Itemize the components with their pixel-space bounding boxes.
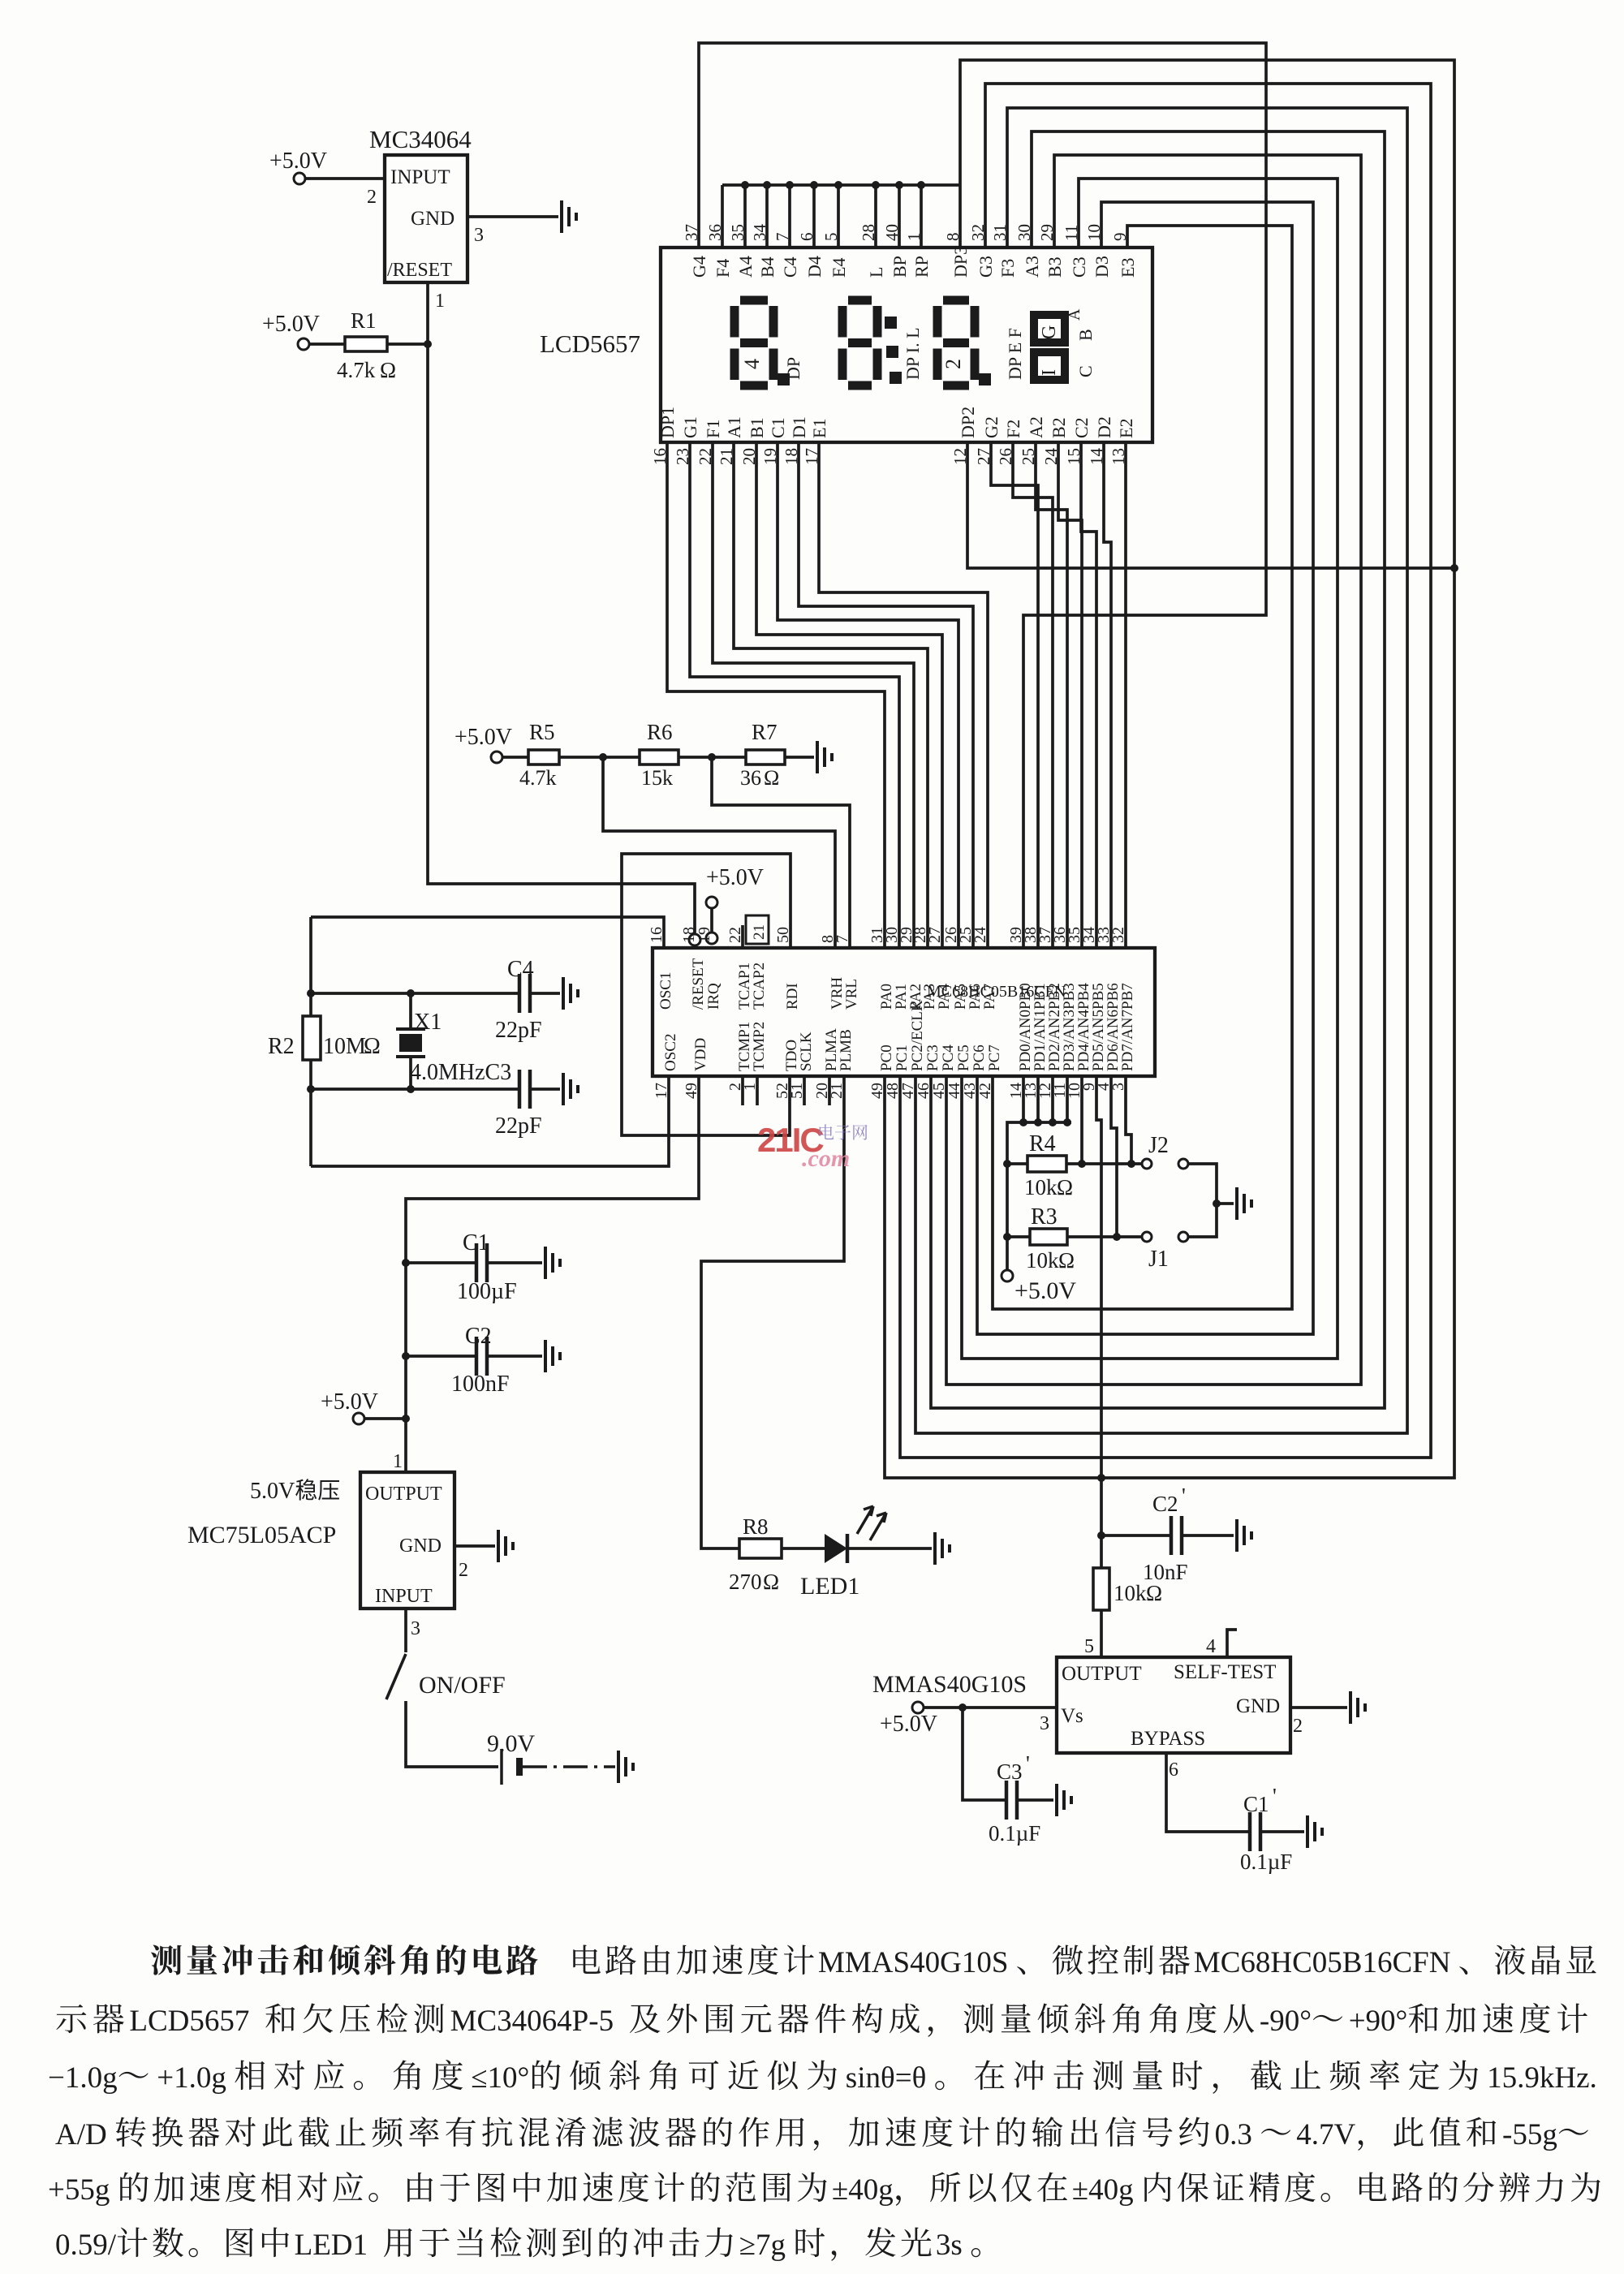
svg-text:E4: E4 <box>829 258 849 278</box>
resistor R1 4.7k <box>309 342 345 346</box>
resistor R4 10k <box>1007 1162 1027 1165</box>
resistor R7 36ohm <box>746 750 785 764</box>
svg-text:10k: 10k <box>1114 1581 1147 1605</box>
svg-text:G3: G3 <box>976 256 996 278</box>
wire loop B3-PC4 <box>946 155 1361 1385</box>
node C2-prime junction <box>1097 1531 1105 1540</box>
svg-text:INPUT: INPUT <box>390 166 450 188</box>
svg-text:A2: A2 <box>1026 416 1046 438</box>
svg-text:RDI: RDI <box>784 983 801 1010</box>
U2 GND pin 3 wire <box>467 215 558 218</box>
svg-text:6: 6 <box>1169 1759 1178 1781</box>
svg-text:PC3: PC3 <box>924 1044 941 1071</box>
wire loop C3-PC5 <box>962 179 1338 1359</box>
LCD pin stub x=1135 to bus <box>920 185 923 248</box>
svg-text:PD7/AN7: PD7/AN7 <box>1119 1010 1136 1071</box>
svg-text:R3: R3 <box>1031 1204 1058 1230</box>
ground after LED1 <box>935 1532 950 1565</box>
svg-text:/RESET: /RESET <box>387 260 452 281</box>
U4 GND pin 2 wire <box>1290 1706 1347 1709</box>
LCD pin F4 stub <box>721 185 724 248</box>
svg-text:R5: R5 <box>529 720 555 744</box>
node J1-J2 ground junction <box>1213 1199 1221 1208</box>
wire battery to ground <box>523 1765 615 1768</box>
svg-text:42: 42 <box>976 1083 994 1099</box>
resistor R2 10M <box>303 1016 321 1060</box>
svg-text:LCD5657: LCD5657 <box>129 2005 249 2038</box>
svg-text:C: C <box>1075 365 1096 377</box>
wire LED1 to ground <box>847 1547 932 1550</box>
svg-text:+5.0V: +5.0V <box>880 1712 937 1737</box>
svg-text:−1.0g: −1.0g <box>48 2061 118 2095</box>
segment G box of digit 4 <box>1034 315 1065 342</box>
wire R5R6 junction to VRH pin 8 <box>603 757 835 948</box>
microcontroller U1 MC68HC05B16CFN <box>653 948 1155 1076</box>
ground at U3 GND <box>498 1530 513 1562</box>
SELF-TEST pin 4 stub <box>1227 1630 1237 1657</box>
BYPASS pin 6 wire to C1-prime <box>1166 1753 1250 1832</box>
wire G4 pin 37 long loop to PB0 <box>699 43 1266 948</box>
svg-text:DP E F: DP E F <box>1005 328 1025 380</box>
svg-text:-55g: -55g <box>1502 2118 1557 2151</box>
svg-text:GND: GND <box>1236 1695 1280 1717</box>
wire DP3 pin 8 outer loop to PC0 <box>885 60 1454 1478</box>
wire bus over LCD common pins <box>722 183 960 187</box>
svg-text:L: L <box>866 267 886 278</box>
VDD wire to +5V rail <box>406 1076 699 1472</box>
ground after C1 <box>545 1247 560 1279</box>
svg-text:A4: A4 <box>735 256 756 278</box>
svg-text:G: G <box>1039 325 1060 339</box>
svg-text:2: 2 <box>941 359 965 369</box>
TCMP2 pin stub <box>756 1076 759 1105</box>
wire LCD pin 13 (E2) to PB7 <box>1124 442 1127 948</box>
wire loop D3-PC6 <box>977 202 1313 1334</box>
ground after R7 <box>817 741 832 773</box>
svg-text:DP1: DP1 <box>657 407 678 438</box>
svg-text:3: 3 <box>1040 1713 1049 1734</box>
colon dots and decimal points of LCD <box>885 317 897 329</box>
svg-text:≥7g: ≥7g <box>739 2229 786 2262</box>
svg-text:': ' <box>1273 1784 1277 1808</box>
LCD pin stub x=1108 to bus <box>898 185 901 248</box>
ground for J1 J2 <box>1237 1187 1251 1220</box>
svg-text:MMAS40G10S: MMAS40G10S <box>872 1671 1027 1698</box>
svg-text:+5.0V: +5.0V <box>706 865 764 890</box>
svg-text:F3: F3 <box>997 259 1018 278</box>
svg-text:R6: R6 <box>647 720 673 744</box>
wire PD7 to R4 output <box>1126 1076 1131 1164</box>
wire loop A3-PC3 <box>931 131 1385 1408</box>
crystal X1 4.0MHz <box>409 993 412 1029</box>
svg-text:4: 4 <box>1206 1636 1216 1657</box>
wire PD6 to R3 output <box>1111 1076 1117 1237</box>
svg-text:VRL: VRL <box>843 979 860 1010</box>
svg-text:': ' <box>1182 1484 1186 1508</box>
svg-text:MC34064: MC34064 <box>369 125 472 153</box>
ground at U4 GND <box>1350 1691 1365 1724</box>
svg-text:C4: C4 <box>507 957 534 982</box>
wire loop F3-PC2 <box>915 108 1407 1433</box>
svg-text:OSC2: OSC2 <box>662 1034 679 1071</box>
node on outer loop <box>1097 1474 1105 1482</box>
svg-text:PC4: PC4 <box>940 1044 957 1071</box>
svg-text:TCAP2: TCAP2 <box>751 963 768 1010</box>
node crystal bottom rail <box>307 1085 315 1093</box>
SCLK pin stub <box>803 1076 806 1105</box>
ground after C4 <box>563 977 578 1010</box>
svg-text:5.0V稳压: 5.0V稳压 <box>250 1478 340 1504</box>
svg-text:Ω: Ω <box>1058 1248 1075 1273</box>
svg-text:15.9kHz.: 15.9kHz. <box>1487 2061 1597 2095</box>
svg-text:A1: A1 <box>724 416 744 438</box>
wire PD5 to accelerometer OUTPUT <box>1096 1076 1101 1568</box>
svg-text:R1: R1 <box>351 308 377 333</box>
svg-text:10k: 10k <box>1026 1248 1059 1273</box>
svg-text:BYPASS: BYPASS <box>1131 1728 1205 1750</box>
svg-text:sinθ=θ: sinθ=θ <box>846 2061 927 2095</box>
svg-text:GND: GND <box>399 1535 442 1557</box>
resistor R6 15k <box>640 750 678 764</box>
svg-text:B3: B3 <box>1045 256 1065 278</box>
svg-text:+5.0V: +5.0V <box>262 312 320 337</box>
svg-text:2: 2 <box>367 187 377 208</box>
seven segment digit 3 of LCD <box>937 300 975 385</box>
svg-text:Ω: Ω <box>380 358 396 382</box>
segment I box of digit 4 <box>1034 352 1065 380</box>
ground after C2-prime <box>1237 1519 1251 1552</box>
svg-text:B: B <box>1075 329 1096 341</box>
svg-text:C2: C2 <box>465 1324 492 1349</box>
capacitor C2 100nF <box>402 1352 410 1360</box>
svg-text:3s: 3s <box>936 2229 963 2262</box>
svg-text:F4: F4 <box>713 259 733 278</box>
svg-text:D2: D2 <box>1094 416 1114 438</box>
svg-text:PC0: PC0 <box>878 1044 895 1071</box>
svg-text:Ω: Ω <box>1146 1581 1162 1605</box>
node R4 left junction <box>1003 1160 1011 1168</box>
node R6-R7 junction <box>708 753 716 761</box>
svg-text:C2: C2 <box>1152 1492 1178 1516</box>
U3 GND pin 2 wire <box>454 1544 495 1548</box>
svg-text:4.7k: 4.7k <box>519 766 557 790</box>
capacitor C3-prime 0.1uF <box>963 1708 1006 1800</box>
LCD pin stub x=1003 to bus <box>812 185 816 248</box>
resistor R3 10k <box>1007 1235 1030 1238</box>
svg-text:27: 27 <box>926 927 944 943</box>
seven segment digit 1 of LCD <box>734 300 773 385</box>
capacitor C1 100uF <box>402 1259 410 1267</box>
svg-text:J2: J2 <box>1148 1133 1169 1158</box>
svg-text:LED1: LED1 <box>295 2229 368 2262</box>
svg-text:MMAS40G10S: MMAS40G10S <box>818 1946 1008 1979</box>
svg-text:+5.0V: +5.0V <box>269 149 327 174</box>
svg-text:PC1: PC1 <box>894 1044 911 1071</box>
svg-text:TCMP2: TCMP2 <box>751 1022 768 1071</box>
node R3 left junction <box>1003 1233 1011 1241</box>
LCD pin stub x=945 to bus <box>765 185 769 248</box>
svg-text:+90°: +90° <box>1349 2005 1408 2038</box>
svg-text:2: 2 <box>459 1560 468 1581</box>
svg-text:100µF: 100µF <box>457 1279 517 1304</box>
switch ON/OFF <box>386 1654 406 1699</box>
svg-text:±40g: ±40g <box>1072 2173 1134 2207</box>
wire /RESET net down to MCU <box>428 344 695 934</box>
LED1 light arrows <box>857 1506 886 1540</box>
wire R6R7 junction to VRL pin 7 <box>712 757 850 948</box>
svg-text:.com: .com <box>802 1145 850 1172</box>
svg-text:D3: D3 <box>1092 256 1112 278</box>
svg-text:0.1µF: 0.1µF <box>989 1821 1040 1845</box>
U2 /RESET pin 1 wire <box>426 282 429 344</box>
svg-text:PC6: PC6 <box>971 1044 988 1071</box>
svg-text:±40g: ±40g <box>832 2173 894 2207</box>
svg-text:RP: RP <box>911 256 932 278</box>
node: /RESET net junction <box>424 340 432 348</box>
ground after C3-prime <box>1057 1784 1071 1816</box>
svg-text:E1: E1 <box>809 419 829 438</box>
svg-text:22pF: 22pF <box>495 1018 542 1043</box>
crystal circuit: OSC2 wire <box>311 1076 669 1166</box>
open pin circle IRQ pin 19 <box>706 932 717 944</box>
svg-text:+1.0g: +1.0g <box>157 2061 226 2095</box>
svg-text:DP I. L: DP I. L <box>902 327 923 380</box>
svg-text:GND: GND <box>411 208 454 230</box>
svg-text:PLMB: PLMB <box>838 1029 855 1071</box>
LCD pin stub x=918 to bus <box>743 185 747 248</box>
svg-text:-90°: -90° <box>1260 2005 1312 2038</box>
+5.0V terminal below R3 <box>1002 1270 1013 1281</box>
svg-text:DP2: DP2 <box>958 407 978 438</box>
svg-text:MC34064P-5: MC34064P-5 <box>450 2005 614 2038</box>
svg-text:3: 3 <box>474 225 484 246</box>
svg-text:G4: G4 <box>689 256 709 278</box>
svg-text:E3: E3 <box>1118 258 1138 278</box>
wire RDI to TDO loop around MCU left <box>622 854 790 1135</box>
svg-text:1: 1 <box>393 1451 403 1472</box>
pin 21 boxed number on TCAP2 <box>746 915 769 944</box>
svg-text:E2: E2 <box>1116 419 1136 438</box>
svg-text:A: A <box>1066 308 1083 321</box>
svg-text:SCLK: SCLK <box>798 1031 815 1071</box>
svg-text:C3: C3 <box>997 1759 1023 1784</box>
svg-text:4.7k: 4.7k <box>337 358 376 382</box>
LCD pin stub x=973 to bus <box>788 185 791 248</box>
svg-text:5: 5 <box>1084 1636 1094 1657</box>
svg-text:C3: C3 <box>1069 256 1089 278</box>
svg-text:A/D: A/D <box>55 2118 107 2151</box>
ground after C2 <box>545 1340 560 1372</box>
capacitor C4 22pF <box>519 974 530 1013</box>
svg-text:10k: 10k <box>1024 1175 1058 1199</box>
svg-text:0.59/: 0.59/ <box>55 2229 117 2262</box>
svg-text:+55g: +55g <box>48 2173 110 2207</box>
svg-text:F1: F1 <box>703 420 723 438</box>
voltage regulator U3 MC75L05ACP <box>360 1472 454 1609</box>
capacitor C3 22pF <box>519 1070 530 1109</box>
wire LCD pin x=1332 to MCU PB <box>1081 442 1096 948</box>
svg-text:C2: C2 <box>1071 417 1092 438</box>
svg-text:SELF-TEST: SELF-TEST <box>1174 1661 1276 1683</box>
svg-text:C1: C1 <box>463 1230 489 1255</box>
crystal top rail wire to C4 <box>311 992 519 995</box>
svg-text:I: I <box>1039 369 1060 376</box>
svg-text:R8: R8 <box>743 1514 769 1539</box>
svg-text:PA7: PA7 <box>981 984 998 1010</box>
wire loop E3-PC7 <box>993 226 1292 1309</box>
PLMA pin stub <box>828 1076 831 1105</box>
svg-text:0.1µF: 0.1µF <box>1240 1850 1292 1874</box>
svg-text:19: 19 <box>696 927 713 943</box>
LCD pin stub x=1033 to bus <box>837 185 840 248</box>
ground after C1-prime <box>1307 1815 1322 1848</box>
svg-text:PC5: PC5 <box>955 1044 972 1071</box>
accelerometer U4 MMAS40G10S <box>1057 1657 1290 1753</box>
LCD pin stub x=1079 to bus <box>874 185 877 248</box>
svg-text:OUTPUT: OUTPUT <box>1062 1663 1142 1685</box>
svg-text:C1: C1 <box>1243 1792 1269 1816</box>
svg-text:DP: DP <box>783 357 803 380</box>
svg-text:1: 1 <box>435 291 445 312</box>
svg-text:PB7: PB7 <box>1119 983 1136 1010</box>
wire LCD pin x=1248 to MCU PB <box>1013 442 1053 948</box>
svg-text:D4: D4 <box>804 256 825 278</box>
svg-text:15k: 15k <box>641 766 673 790</box>
node Vs junction for C3-prime <box>958 1703 967 1712</box>
svg-text:2: 2 <box>1293 1716 1303 1737</box>
PD0-PD3 pulldown bus to R4/R3 <box>1022 1076 1025 1122</box>
svg-text:X1: X1 <box>414 1010 442 1035</box>
svg-text:/RESET: /RESET <box>690 958 707 1010</box>
TCMP1 pin stub <box>741 1076 744 1105</box>
crystal loop: OSC1 wire <box>311 917 664 948</box>
jumper J2 <box>1142 1159 1152 1169</box>
svg-text:PC7: PC7 <box>986 1044 1003 1071</box>
svg-text:R4: R4 <box>1029 1131 1056 1156</box>
svg-text:270: 270 <box>729 1570 762 1594</box>
svg-text:7: 7 <box>834 935 851 943</box>
svg-text:ON/OFF: ON/OFF <box>419 1672 506 1699</box>
svg-text:R7: R7 <box>752 720 778 744</box>
svg-text:D1: D1 <box>789 416 809 438</box>
wire PLMB to R8 LED driver <box>701 1076 844 1548</box>
svg-text:4.0MHzC3: 4.0MHzC3 <box>410 1060 511 1085</box>
svg-text:36: 36 <box>740 766 761 790</box>
jumper J1 <box>1142 1232 1152 1242</box>
crystal bottom rail wire to C3 <box>311 1087 519 1091</box>
wire LCD pin x=1276 to MCU PB <box>1036 442 1067 948</box>
svg-text:LCD5657: LCD5657 <box>540 329 640 358</box>
open pin circle MCU /RESET pin 18 <box>689 934 700 945</box>
svg-text:Ω: Ω <box>1057 1175 1073 1199</box>
TCAP1 pin stub <box>741 925 744 948</box>
svg-text:OUTPUT: OUTPUT <box>365 1484 442 1505</box>
resistor 10k at accelerometer output <box>1093 1568 1109 1610</box>
svg-text:A3: A3 <box>1022 256 1042 278</box>
ground at U2 GND <box>562 200 576 233</box>
svg-text:21: 21 <box>751 924 768 940</box>
ground after C3 <box>563 1073 578 1105</box>
battery 9.0V <box>500 1749 503 1785</box>
resistor R8 270ohm <box>739 1539 782 1558</box>
node R5-R6 junction <box>599 753 607 761</box>
wire LCD pin x=1221 to MCU PB <box>991 442 1038 948</box>
capacitor C1-prime 0.1uF <box>1250 1812 1260 1851</box>
svg-text:+5.0V: +5.0V <box>1014 1277 1076 1304</box>
caption paragraph <box>151 1945 182 1975</box>
LED1 diode <box>825 1534 847 1563</box>
svg-text:F2: F2 <box>1003 420 1023 438</box>
svg-text:LED1: LED1 <box>800 1573 859 1600</box>
svg-text:MC75L05ACP: MC75L05ACP <box>187 1522 336 1548</box>
svg-text:+5.0V: +5.0V <box>454 725 512 750</box>
wire LCD pin x=1304 to MCU PB <box>1058 442 1082 948</box>
svg-text:Ω: Ω <box>764 766 779 790</box>
svg-text:J1: J1 <box>1148 1247 1169 1272</box>
node crystal top rail <box>307 989 315 997</box>
svg-text:PC2/ECLK: PC2/ECLK <box>909 1000 926 1071</box>
svg-text:VDD: VDD <box>692 1038 709 1071</box>
U3 INPUT pin 3 wire <box>404 1609 407 1652</box>
svg-text:B4: B4 <box>757 256 778 278</box>
svg-text:C1: C1 <box>768 417 788 438</box>
svg-text:MC68HC05B16CFN: MC68HC05B16CFN <box>1194 1946 1451 1979</box>
wire LCD pin x=1360 to MCU PB <box>1104 442 1111 948</box>
wire loop G3-PC1 <box>900 84 1431 1458</box>
svg-text:C4: C4 <box>780 256 800 278</box>
svg-text:4: 4 <box>740 359 764 369</box>
seven segment digit 2 of LCD <box>842 300 877 385</box>
svg-text:24: 24 <box>971 927 989 943</box>
ground after battery <box>618 1751 633 1783</box>
svg-text:': ' <box>1026 1751 1030 1776</box>
wire DP2 pin 12 to outer right loop <box>967 442 1454 568</box>
svg-text:100nF: 100nF <box>451 1372 510 1397</box>
svg-text:R2: R2 <box>268 1034 295 1059</box>
svg-text:DP3: DP3 <box>950 246 971 278</box>
svg-text:G2: G2 <box>981 416 1002 438</box>
svg-text:9.0V: 9.0V <box>487 1730 536 1757</box>
svg-text:4.7V: 4.7V <box>1296 2118 1355 2151</box>
svg-text:32: 32 <box>1109 927 1127 943</box>
svg-text:10M: 10M <box>323 1034 366 1059</box>
svg-text:BP: BP <box>890 256 910 278</box>
svg-text:Ω: Ω <box>763 1570 779 1594</box>
svg-text:Ω: Ω <box>364 1034 381 1059</box>
svg-text:22pF: 22pF <box>495 1113 542 1139</box>
svg-text:0.3: 0.3 <box>1215 2118 1252 2151</box>
svg-text:Vs: Vs <box>1061 1705 1083 1727</box>
wire PD4 to R4 output <box>1080 1076 1083 1164</box>
svg-text:PA4: PA4 <box>936 983 953 1010</box>
svg-text:≤10°: ≤10° <box>471 2061 529 2095</box>
svg-text:INPUT: INPUT <box>375 1586 433 1607</box>
svg-text:G1: G1 <box>680 416 700 438</box>
svg-text:B2: B2 <box>1049 417 1069 438</box>
svg-text:+5.0V: +5.0V <box>321 1389 378 1415</box>
svg-text:OSC1: OSC1 <box>657 972 674 1010</box>
capacitor C2-prime 10nF <box>1101 1534 1171 1537</box>
svg-text:3: 3 <box>411 1618 420 1639</box>
svg-text:B1: B1 <box>747 417 767 438</box>
svg-text:IRQ: IRQ <box>705 983 722 1010</box>
left branch with R2 <box>309 917 312 1016</box>
